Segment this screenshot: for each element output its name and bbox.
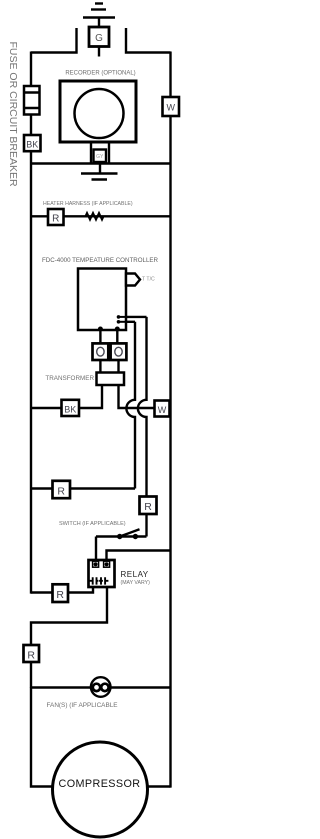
wire: W tag to right rail [170, 407, 171, 409]
wire tag G [89, 27, 109, 47]
wire tag BK (transformer secondary) [62, 400, 80, 416]
earth ground (top) [83, 4, 115, 28]
wire: recorder right drop [108, 142, 110, 164]
svg-text:BK: BK [26, 140, 38, 150]
wire: relay coil return to lower left vertical [31, 587, 107, 688]
svg-text:T T/C: T T/C [142, 277, 155, 283]
wire: left rail long (BK tag to relay rung) [30, 151, 32, 593]
relay terminal left [93, 561, 99, 567]
wire: heater rung [31, 215, 171, 217]
node: controller output junction left [98, 327, 103, 332]
svg-text:RECORDER (OPTIONAL): RECORDER (OPTIONAL) [65, 71, 135, 77]
svg-text:R: R [144, 501, 152, 513]
wire tag R (lower left vertical) [24, 645, 40, 662]
svg-text:R: R [52, 214, 59, 225]
wire: top-right supply stub [126, 28, 171, 53]
recorder box [60, 81, 136, 142]
transformer T1 [97, 373, 125, 386]
pin: controller prong 1 [117, 315, 126, 319]
wire: right rail upper [169, 52, 171, 99]
wire: C1 vertical with hop arc [126, 322, 135, 489]
wire: left rail corner into relay coil rung [31, 587, 93, 593]
svg-text:FAN(S) (IF APPLICABLE: FAN(S) (IF APPLICABLE [47, 702, 118, 709]
earth ground (below recorder) [81, 174, 118, 180]
wire: controller to O terminals [100, 330, 117, 344]
pin: controller prong 2 [117, 320, 126, 324]
svg-text:R: R [27, 649, 35, 661]
wire: left rail between fuse and BK tag [30, 115, 32, 137]
wire: R rung (left rail to C1) [31, 487, 135, 489]
svg-text:R: R [56, 589, 64, 601]
wire: prong1 to outer vertical C2 [126, 316, 147, 318]
fuse / circuit breaker [24, 86, 40, 115]
svg-text:COMPRESSOR: COMPRESSOR [59, 778, 141, 790]
svg-text:TRANSFORMER: TRANSFORMER [45, 375, 94, 382]
switch S1 [96, 529, 147, 539]
wire: fan rung [31, 686, 171, 688]
controller U1 box [78, 269, 126, 331]
svg-text:W: W [166, 103, 175, 113]
wire tag W (right rail) [163, 97, 180, 116]
wire: ground stem below GY [99, 164, 101, 174]
svg-text:SWITCH (IF APPLICABLE): SWITCH (IF APPLICABLE) [59, 521, 126, 527]
svg-text:FUSE OR CIRCUIT BREAKER: FUSE OR CIRCUIT BREAKER [7, 42, 19, 187]
svg-text:G: G [95, 33, 103, 44]
wire: top-left supply stub [31, 28, 77, 53]
compressor M1 [53, 742, 148, 837]
recorder dial circle [75, 89, 124, 138]
wire: recorder left drop [90, 142, 92, 164]
node: controller output junction right [115, 327, 120, 332]
wire: right rail to relay top right [107, 551, 171, 562]
wire: switch to relay coil left [95, 537, 97, 562]
wire: G stub below tag [98, 47, 100, 57]
wire tag R (relay rung) [53, 584, 69, 602]
svg-text:GY: GY [96, 154, 104, 160]
svg-text:R: R [57, 485, 65, 497]
thermocouple connector flag [126, 274, 140, 286]
svg-text:FDC-4000 TEMPEATURE CONTROLLER: FDC-4000 TEMPEATURE CONTROLLER [42, 257, 159, 264]
svg-text:HEATER HARNESS (IF APPLICABLE): HEATER HARNESS (IF APPLICABLE) [43, 201, 133, 207]
wire tag W (transformer secondary) [155, 401, 170, 417]
wire: transformer right lead to W tag [119, 385, 155, 408]
wire: right rail long [169, 116, 171, 788]
wire: recorder rung (left rail to right rail) [31, 162, 171, 164]
relay K1 box [89, 560, 115, 587]
wire: left rail upper [30, 52, 32, 88]
wire tag GY [94, 150, 107, 163]
wire: right rail to compressor [148, 785, 171, 787]
wire: C2 vertical with hop arc [138, 317, 147, 497]
wire tag BK (left rail) [24, 135, 41, 151]
relay terminal right [104, 561, 110, 567]
wire tag R (on R rung) [53, 481, 71, 498]
fan motor symbol [91, 677, 111, 697]
wire: left vertical to compressor [31, 688, 53, 787]
svg-text:RELAY: RELAY [121, 570, 149, 579]
relay coil contacts [90, 577, 109, 584]
svg-text:W: W [158, 405, 167, 415]
wire: C2 below R tag to switch rung [145, 514, 147, 537]
svg-text:(MAY VARY): (MAY VARY) [121, 580, 151, 586]
wire: O terminals to transformer [100, 360, 118, 373]
wire: prong2 to inner vertical C1 [126, 321, 135, 323]
terminal O (right) [111, 343, 127, 360]
svg-text:BK: BK [64, 404, 76, 414]
terminal O (left) [93, 343, 109, 360]
wire: transformer left lead down to BK rung [31, 385, 102, 408]
wire tag R (heater) [48, 209, 64, 225]
wire tag R (on C2) [140, 497, 157, 515]
resistor: heater element [86, 213, 104, 220]
